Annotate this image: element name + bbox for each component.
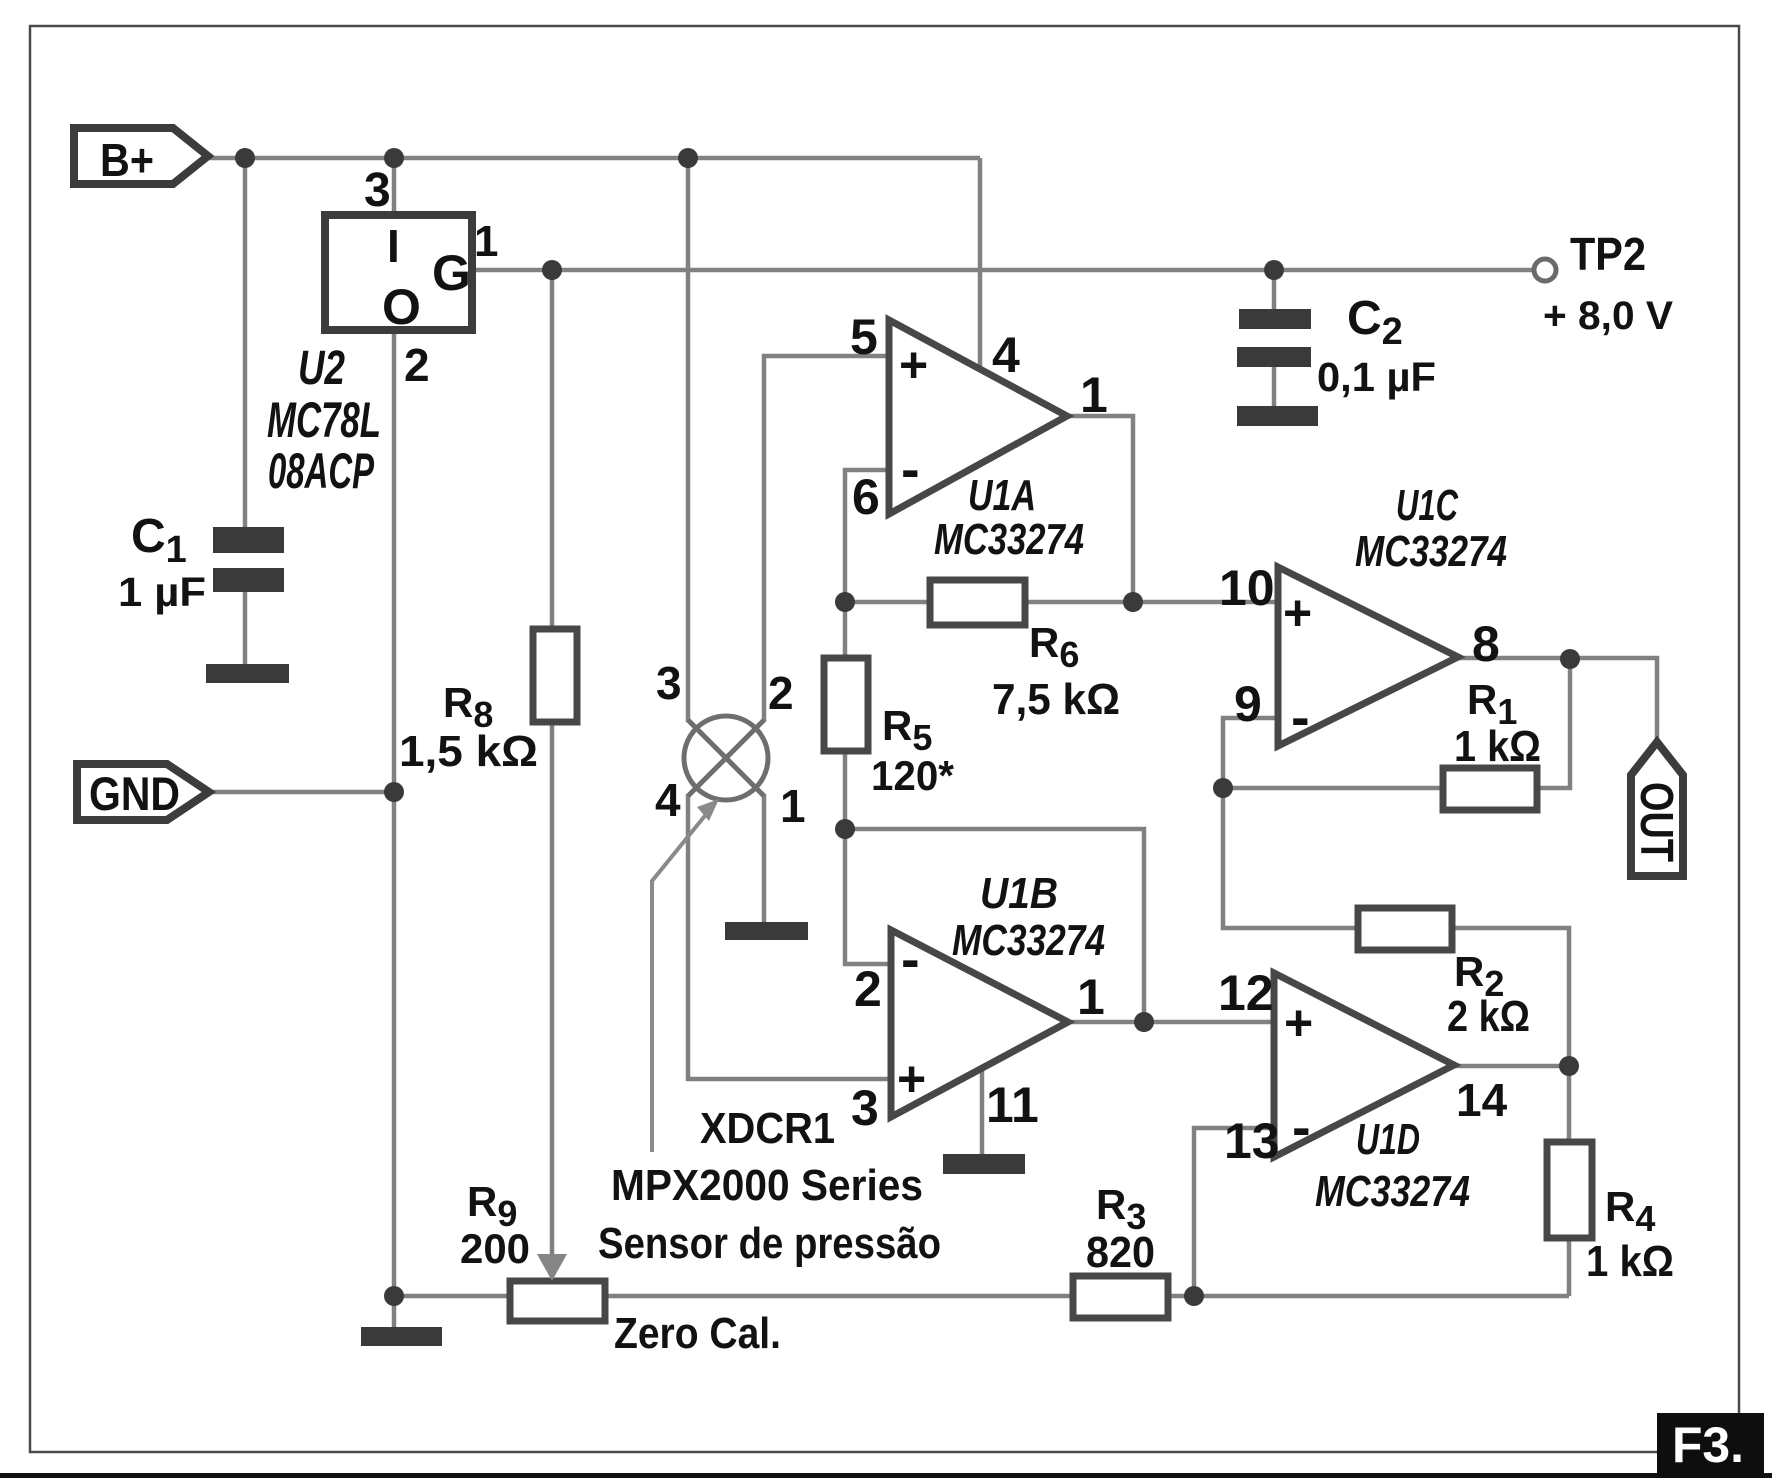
wire U1C output [1458,658,1657,742]
svg-text:Sensor de pressão: Sensor de pressão [598,1219,941,1268]
U1D ref label [1315,1115,1470,1216]
svg-text:+: + [1284,995,1313,1051]
wire R6 right lead [1025,600,1133,605]
wire U2 pin3 [392,158,397,215]
wire R2 right lead to R4 [1452,928,1569,1142]
svg-text:MPX2000 Series: MPX2000 Series [611,1161,923,1210]
svg-text:820: 820 [1086,1228,1155,1277]
svg-text:14: 14 [1456,1074,1508,1126]
svg-text:+: + [899,337,928,393]
potentiometer R9 [460,1178,781,1358]
svg-text:1 µF: 1 µF [118,569,206,615]
wire R5 bottom lead [843,751,848,829]
resistor R5 [824,658,955,799]
wire U1A pin6 [845,470,889,602]
junction B+ / C1 [235,148,255,168]
junction U1D out / R2 / R4 [1559,1056,1579,1076]
resistor R4 [1547,1142,1674,1286]
svg-text:1: 1 [780,780,806,832]
wire bottom rail right [1194,1294,1569,1299]
svg-text:6: 6 [852,469,880,525]
wire U2 pin2 ground column [392,330,397,1327]
wire +8V rail [472,268,1534,273]
svg-text:Zero Cal.: Zero Cal. [614,1309,781,1358]
svg-text:2 kΩ: 2 kΩ [1447,992,1530,1041]
resistor R3 [1073,1181,1168,1318]
wire R2 left lead [1223,788,1358,928]
svg-text:U1B: U1B [980,869,1058,918]
resistor R6 [930,580,1120,724]
capacitor C2 [1237,292,1436,400]
wire C1 top lead [243,158,248,527]
wire XDCR1 pin3 from B+ [686,158,691,722]
op-amp U1C [1278,567,1458,748]
U1A ref label [934,471,1084,564]
svg-text:+: + [897,1051,926,1107]
wire R6 left lead [845,600,930,605]
svg-text:MC33274: MC33274 [1355,527,1507,576]
svg-text:TP2: TP2 [1570,228,1646,280]
svg-text:1 kΩ: 1 kΩ [1586,1237,1674,1286]
svg-text:1: 1 [474,217,498,266]
junction U1C pin9 / R1 / R2 [1213,778,1233,798]
wire U1A output [1067,416,1133,602]
wire R8 to R9 wiper [550,722,555,1256]
ground XDCR1 pin1 [725,922,808,940]
wire U1D pin13 [1194,1128,1274,1296]
wire R1 right lead [1537,659,1570,788]
svg-text:1 kΩ: 1 kΩ [1454,722,1541,771]
wire R5 top lead [843,602,848,658]
U1B ref label [952,869,1105,965]
ground C2 [1237,406,1318,426]
OUT terminal [1631,742,1683,876]
XDCR1 leader arrow [652,799,719,1152]
op-amp U1A [889,320,1067,514]
svg-text:I: I [387,220,400,272]
svg-text:MC33274: MC33274 [952,916,1105,965]
wire C2 top lead [1272,270,1277,309]
svg-text:MC33274: MC33274 [934,515,1084,564]
pressure sensor XDCR1 [684,716,768,800]
wire U1C pin9 [1223,718,1278,788]
junction U1C out / R1 [1560,649,1580,669]
node A junction R5/R6/U1A pin6 [835,592,855,612]
svg-text:+ 8,0 V: + 8,0 V [1543,294,1673,338]
junction GND / ground column [384,782,404,802]
wire R9 to R3 [605,1294,1073,1299]
svg-text:B+: B+ [100,134,154,186]
svg-text:5: 5 [850,309,878,365]
svg-text:4: 4 [992,327,1020,383]
wire node B to U1B pin2 [845,829,889,964]
svg-text:12: 12 [1218,965,1274,1021]
junction B+ / U2 pin3 [384,148,404,168]
svg-text:3: 3 [364,164,391,217]
svg-text:7,5 kΩ: 7,5 kΩ [992,675,1120,724]
svg-text:-: - [1292,1095,1311,1158]
svg-text:1: 1 [1077,969,1105,1025]
wire R8 top lead [550,271,555,629]
ground bottom-left [361,1327,442,1346]
svg-text:-: - [901,437,920,500]
op-amp U1B [891,927,1068,1117]
junction B+ / XDCR1 pin3 [678,148,698,168]
U1C ref label [1355,481,1507,576]
node B junction R5 bottom [835,819,855,839]
resistor R2 [1358,908,1530,1041]
wire R4 bottom lead [1567,1238,1572,1296]
svg-text:11: 11 [986,1077,1039,1133]
svg-text:MC33274: MC33274 [1315,1167,1470,1216]
wire B+ rail [208,156,980,161]
svg-text:U1D: U1D [1356,1115,1420,1164]
wire XDCR1 pin4 to U1B pin3 [688,794,889,1079]
regulator U2 MC78L08ACP [325,215,472,335]
svg-text:OUT: OUT [1631,782,1683,862]
TP2 test point [1534,228,1673,338]
wire U1B pin11 ground lead [980,1068,985,1154]
svg-text:2: 2 [768,667,794,719]
wire node B to U1B output [845,829,1144,1022]
svg-text:10: 10 [1219,560,1275,616]
junction +8V / R8 [542,260,562,280]
svg-text:+: + [1283,585,1312,641]
B+ terminal [74,128,208,186]
svg-text:3: 3 [656,657,682,709]
svg-text:MC78L: MC78L [267,392,381,448]
svg-text:8: 8 [1472,616,1500,672]
svg-text:120*: 120* [871,752,955,799]
svg-text:2: 2 [404,339,430,391]
svg-text:1: 1 [1080,367,1108,423]
svg-text:-: - [1291,685,1310,748]
wire XDCR1 pin1 to ground [762,794,767,922]
wire C2 ground lead [1272,367,1277,406]
wire U1D output [1454,1064,1569,1069]
wire U1B output to U1D pin12 [1068,1020,1274,1025]
capacitor C1 [118,510,284,615]
svg-text:XDCR1: XDCR1 [700,1104,835,1153]
wire R1 left lead [1223,786,1443,791]
svg-text:13: 13 [1224,1113,1280,1169]
junction U1B out / U1D pin12 [1134,1012,1154,1032]
svg-text:GND: GND [89,767,180,820]
svg-text:U2: U2 [298,342,345,395]
wire U1C pin10 [1133,600,1278,605]
svg-text:0,1 µF: 0,1 µF [1317,354,1436,400]
svg-text:3: 3 [851,1080,879,1136]
svg-text:1,5 kΩ: 1,5 kΩ [399,727,538,776]
svg-text:200: 200 [460,1225,530,1272]
junction +8V / C2 [1264,260,1284,280]
XDCR1 name labels [598,1104,941,1268]
svg-text:O: O [382,279,421,335]
svg-text:U1C: U1C [1396,481,1459,530]
wire U1A pin4 power [978,158,983,366]
resistor R1 [1443,676,1541,810]
svg-text:G: G [432,245,471,301]
figure tag F3. [1657,1413,1764,1478]
ground C1 [206,664,289,683]
svg-text:U1A: U1A [968,471,1036,520]
svg-text:9: 9 [1234,676,1262,732]
svg-text:2: 2 [854,961,882,1017]
svg-text:-: - [901,927,920,990]
junction R3 / U1D pin13 [1184,1286,1204,1306]
wire bottom rail left [394,1294,510,1299]
svg-text:F3.: F3. [1672,1417,1744,1473]
wire GND terminal [209,790,394,795]
junction U1A out / R6 / U1C pin10 [1123,592,1143,612]
op-amp U1D [1274,973,1454,1158]
U2 ref label [267,342,381,499]
ground U1B pin11 [943,1154,1025,1174]
GND terminal [77,764,209,820]
wire C1 bottom lead [243,592,248,664]
svg-text:08ACP: 08ACP [268,443,374,499]
wire R3 right lead [1168,1294,1194,1299]
wire XDCR1 pin2 to U1A pin5 [764,356,889,722]
resistor R8 [399,629,577,776]
junction bottom-left ground node [384,1286,404,1306]
svg-text:4: 4 [655,774,681,826]
